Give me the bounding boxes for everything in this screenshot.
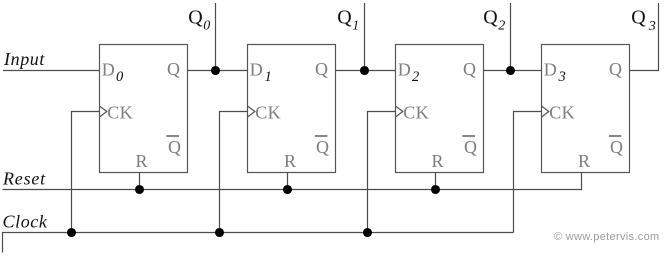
svg-text:Q: Q [631,7,646,29]
svg-text:Q: Q [167,59,180,79]
svg-text:Reset: Reset [2,169,46,189]
svg-text:Q: Q [609,59,622,79]
svg-text:2: 2 [412,69,419,85]
svg-text:CK: CK [255,103,281,123]
svg-text:CK: CK [107,103,133,123]
svg-text:CK: CK [403,103,429,123]
svg-text:Q: Q [316,137,329,157]
svg-text:CK: CK [549,103,575,123]
svg-text:3: 3 [648,19,656,34]
svg-text:0: 0 [116,69,124,85]
svg-text:0: 0 [203,19,210,34]
svg-text:D: D [398,59,411,79]
svg-text:Input: Input [3,49,45,69]
svg-text:R: R [431,151,443,171]
svg-text:R: R [284,151,296,171]
svg-text:Q: Q [464,137,477,157]
svg-text:Q: Q [610,137,623,157]
svg-text:1: 1 [265,69,272,85]
svg-text:3: 3 [558,69,566,85]
svg-text:R: R [135,151,147,171]
svg-text:2: 2 [498,19,505,34]
svg-text:D: D [250,59,263,79]
svg-text:D: D [102,59,115,79]
svg-text:Q: Q [168,137,181,157]
svg-text:© www.petervis.com: © www.petervis.com [554,231,660,243]
svg-text:Clock: Clock [3,212,48,232]
svg-text:Q: Q [337,7,352,29]
svg-text:R: R [578,151,590,171]
svg-text:Q: Q [463,59,476,79]
svg-text:D: D [544,59,557,79]
svg-text:1: 1 [352,19,359,34]
svg-text:Q: Q [188,7,203,29]
svg-text:Q: Q [483,7,498,29]
svg-text:Q: Q [315,59,328,79]
